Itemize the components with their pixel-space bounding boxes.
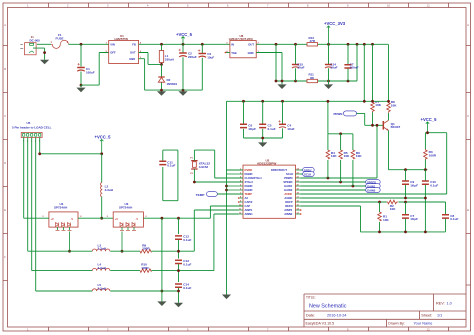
svg-text:-V: -V [71, 218, 74, 221]
svg-text:REFP: REFP [285, 200, 292, 204]
svg-text:CLKIN/XTAL1: CLKIN/XTAL1 [245, 176, 263, 180]
svg-text:REV:: REV: [436, 301, 445, 305]
svg-text:+VCC_3V3: +VCC_3V3 [324, 21, 346, 26]
svg-text:GAIN1: GAIN1 [284, 184, 293, 188]
junction C1 bottom [80, 84, 83, 87]
svg-text:SCLK: SCLK [286, 172, 293, 176]
svg-text:DGND: DGND [245, 172, 253, 176]
svg-text:10uF: 10uF [330, 66, 337, 70]
svg-text:AINP1: AINP1 [245, 208, 253, 212]
wire OUT 3V3 rail [256, 43, 388, 45]
wire header pin3 to row2 [31, 138, 33, 271]
svg-text:E: E [4, 208, 6, 212]
ground (C2) [178, 91, 187, 96]
capacitor C5 0.1uF [259, 101, 275, 138]
wire PDWN pin row [301, 125, 378, 178]
capacitor C1 [77, 44, 95, 85]
ground (D2) [157, 91, 166, 96]
svg-text:LM1117 (SOT-223): LM1117 (SOT-223) [229, 37, 253, 41]
fuse F1 [51, 33, 69, 49]
svg-text:Date:: Date: [306, 313, 315, 317]
wire analog gnd bottom rail [361, 231, 446, 233]
svg-text:GAIN0: GAIN0 [367, 189, 376, 193]
wire U4 pins [40, 217, 113, 219]
svg-text:SP724AH: SP724AH [119, 206, 132, 210]
wire DGND vertical [226, 101, 228, 294]
protection U3 SP724AH [107, 202, 148, 227]
svg-text:E: E [467, 208, 469, 212]
svg-text:PDWN: PDWN [284, 176, 292, 180]
wire header pin1 to U4 [24, 138, 40, 219]
svg-text:+VCC_5: +VCC_5 [176, 32, 193, 37]
svg-text:SPEED: SPEED [283, 180, 292, 184]
wire mid gnd rail [276, 44, 357, 81]
TITLE BLOCK [304, 294, 466, 327]
pin end dots (unconnected pins) [225, 52, 302, 215]
svg-text:BC337: BC337 [391, 125, 401, 129]
inductor L2 3.3uH [101, 154, 114, 197]
svg-text:0.1uF: 0.1uF [183, 238, 191, 242]
node FB rail junctions [160, 43, 163, 46]
wire cap column [178, 218, 180, 302]
svg-text:A: A [4, 23, 6, 27]
wire header pin5 to VCC5 [40, 138, 102, 154]
svg-text:1/1: 1/1 [437, 313, 442, 317]
svg-text:FUSE: FUSE [56, 36, 64, 40]
wire DVDD stub / pin1 [239, 169, 243, 171]
svg-text:GAIN0: GAIN0 [284, 188, 293, 192]
svg-text:3.3uH: 3.3uH [98, 247, 107, 251]
ground (bypass) [258, 142, 267, 147]
svg-text:C: C [467, 114, 469, 118]
svg-text:A: A [467, 23, 469, 27]
svg-text:OUT: OUT [248, 43, 254, 47]
resistor R8 10K [387, 100, 398, 113]
wire REFP row [301, 201, 446, 203]
capacitor C4 10uF [278, 101, 294, 138]
node D2 gnd junction [160, 89, 163, 92]
wire J1 to fuse [37, 43, 51, 45]
wire R7 feed [372, 44, 374, 101]
svg-text:CAP: CAP [245, 204, 251, 208]
op U1 LM2575S [106, 34, 142, 64]
net port PDWN (top) [334, 111, 357, 116]
wire header pin2 to row1 [27, 138, 29, 252]
capacitor C6 1KpF [240, 101, 256, 138]
resistor R7 10K [371, 100, 382, 113]
wire row2 AINN [32, 270, 214, 272]
resistor R1 10K [378, 202, 390, 232]
svg-text:GND: GND [248, 51, 254, 55]
wire crystal to XTAL1 [194, 150, 243, 178]
svg-text:AINN1: AINN1 [245, 212, 254, 216]
svg-text:1KpF: 1KpF [410, 183, 418, 187]
svg-text:DRDY/DOUT: DRDY/DOUT [271, 168, 287, 172]
wire U3 bottom pins [122, 227, 134, 230]
svg-text:GND: GND [129, 57, 135, 61]
wire DVDD feed from rail drop [227, 169, 244, 171]
svg-text:+VCC_5: +VCC_5 [421, 117, 438, 122]
transistor Q1 BC337 [383, 113, 400, 131]
border ticks left/right [3, 46, 8, 281]
svg-text:AVDD: AVDD [284, 192, 291, 196]
svg-text:LM2575S: LM2575S [115, 37, 128, 41]
svg-text:VIN: VIN [110, 43, 115, 47]
svg-text:1.0: 1.0 [447, 301, 452, 305]
svg-text:PDWN: PDWN [334, 112, 343, 116]
net port GAIN0 [366, 188, 381, 193]
connector J1 DC-005 [20, 35, 40, 55]
resistor R4 10K [326, 134, 337, 178]
wire AINP1 vert [194, 210, 239, 251]
svg-text:10K: 10K [344, 154, 350, 158]
capacitor C11 0.1uF loop [159, 150, 178, 201]
wire AVDD top line [389, 169, 428, 171]
capacitor C15 10uF [292, 44, 305, 81]
resistor R5 10K [339, 134, 350, 182]
svg-text:OUT: OUT [130, 51, 136, 55]
wire U4 bottom pins [58, 227, 70, 230]
inductor L4 3.3uH [92, 263, 110, 271]
wire row1 AINP [28, 250, 195, 252]
node L1/OUT junction [160, 63, 163, 66]
wire GAIN0 row [301, 189, 366, 191]
svg-text:3.3uH: 3.3uH [98, 266, 107, 270]
wire U6 TAB stub [226, 52, 230, 54]
svg-text:+V: +V [51, 218, 54, 221]
svg-text:1KpF: 1KpF [410, 217, 418, 221]
svg-text:DGND: DGND [245, 188, 253, 192]
svg-text:10uF: 10uF [287, 127, 294, 131]
svg-text:AINN2: AINN2 [284, 212, 293, 216]
svg-text:3.3uH: 3.3uH [98, 287, 107, 291]
protection U4 SP724AH [42, 202, 82, 227]
svg-text:3.3uH: 3.3uH [105, 188, 114, 192]
ground (cap column) [174, 303, 183, 308]
inductor L3 3.3uH [92, 243, 110, 251]
wire SPEED row [301, 181, 366, 183]
svg-text:DGND: DGND [245, 184, 253, 188]
capacitor C14 0.1uF [175, 283, 191, 290]
svg-text:1KpF: 1KpF [248, 127, 256, 131]
svg-text:DC-005: DC-005 [30, 39, 41, 43]
svg-text:AGND: AGND [284, 196, 292, 200]
svg-text:0.1uF: 0.1uF [167, 164, 175, 168]
svg-text:100nF: 100nF [350, 66, 359, 70]
svg-text:TEMP: TEMP [245, 192, 253, 196]
net port SPEED [366, 180, 381, 185]
ground (input) [40, 60, 49, 65]
svg-text:SCLK: SCLK [304, 173, 311, 177]
wire shield gnd vertical [161, 218, 163, 301]
svg-text:+V: +V [115, 218, 118, 221]
resistor R2 10K [387, 200, 398, 211]
svg-text:TEMP: TEMP [196, 193, 205, 197]
net port GAIN1 [366, 184, 381, 189]
wire AINN1 vert [214, 214, 239, 271]
wire Q1 emitter down [388, 130, 390, 169]
capacitor C9 [402, 170, 418, 198]
svg-text:5 Pin header to LOAD CELL: 5 Pin header to LOAD CELL [12, 125, 52, 129]
diode D2 1N5819 [158, 64, 177, 90]
border ticks top/bottom [49, 3, 449, 8]
power flag +VCC_5 [176, 32, 193, 45]
capacitor C13 0.1uF [175, 259, 191, 266]
wire VCC5 node split [425, 133, 446, 149]
svg-text:10uF: 10uF [207, 56, 214, 60]
svg-text:0.1uF: 0.1uF [450, 217, 458, 221]
svg-text:D: D [4, 161, 6, 165]
wire U6 GND to gnd [256, 53, 282, 82]
wire OFF pin loop [81, 53, 109, 86]
ground (shield) [157, 301, 166, 306]
connector U5 header [12, 121, 52, 142]
svg-text:Your Name: Your Name [414, 321, 433, 325]
svg-text:0.1uF: 0.1uF [268, 127, 276, 131]
inductor L5 3.3uH [92, 283, 110, 291]
wire PDWN to Q1 base [357, 113, 384, 125]
svg-text:100uF: 100uF [86, 71, 95, 75]
capacitor C8 [442, 202, 458, 232]
net port SCLK [301, 172, 315, 177]
svg-text:1N5819: 1N5819 [167, 82, 178, 86]
svg-text:10K: 10K [391, 104, 397, 108]
svg-text:TITLE:: TITLE: [306, 296, 316, 300]
junction node VIN [80, 43, 83, 46]
svg-text:ADS1232IPW: ADS1232IPW [257, 162, 276, 166]
svg-text:10K: 10K [331, 154, 337, 158]
svg-text:0.1uF: 0.1uF [183, 286, 191, 290]
svg-text:C: C [4, 114, 6, 118]
ground (DGND) [222, 295, 231, 300]
wire AGND row [301, 198, 426, 232]
wire REFN down [301, 206, 361, 232]
wire OUT to L1 bottom [139, 53, 162, 65]
svg-text:CAP/2: CAP/2 [245, 200, 253, 204]
capacitor C7 100nF [344, 44, 358, 81]
wire bypass gnd join [244, 138, 283, 142]
wire U1 GND down [139, 59, 203, 90]
svg-text:0.1uF: 0.1uF [183, 262, 191, 266]
svg-text:10K: 10K [356, 154, 362, 158]
svg-text:10K: 10K [390, 207, 396, 211]
U2 pin stubs right [296, 170, 301, 214]
wire header pin4 to row3 [35, 138, 37, 292]
ground (C1) [80, 85, 82, 87]
resistor R3 100R [424, 149, 437, 160]
resistor R12 [307, 36, 318, 46]
wire vert to mid gnd rail [275, 44, 277, 81]
svg-text:10K: 10K [383, 218, 389, 222]
wire R7 to base node [372, 112, 374, 125]
capacitor C10 [422, 170, 438, 198]
svg-text:XTAL2: XTAL2 [245, 180, 254, 184]
svg-text:100R: 100R [429, 153, 437, 157]
svg-text:TAB: TAB [231, 51, 236, 55]
ground (C14) [328, 81, 330, 84]
svg-text:2016-10-24: 2016-10-24 [327, 313, 346, 317]
power flag +VCC_5 (analog) [421, 117, 438, 133]
wire R8 feed [388, 44, 390, 101]
svg-text:10uF: 10uF [297, 66, 304, 70]
U2 pin names [245, 168, 294, 216]
capacitor C12 0.1uF [175, 235, 191, 242]
wire U3 right net [143, 217, 210, 219]
svg-text:330uH: 330uH [165, 58, 174, 62]
wire DGND stubs to vertical [227, 174, 239, 190]
svg-text:47R: 47R [310, 39, 316, 43]
svg-text:AINP2: AINP2 [284, 208, 292, 212]
svg-text:+VCC_5: +VCC_5 [95, 135, 112, 140]
svg-text:FB: FB [132, 43, 136, 47]
svg-text:100R: 100R [142, 247, 150, 251]
wire L2 to +V node [101, 197, 103, 218]
wire main 3V3 rail [227, 100, 389, 102]
wire R4R5R6 top rail [328, 101, 353, 134]
wire row3 shield [36, 290, 179, 292]
wire FB rail to U6 [139, 43, 230, 45]
ground (U6) [281, 81, 283, 84]
inductor L1 [159, 44, 174, 64]
svg-text:220uF: 220uF [188, 55, 197, 59]
U2 pin numbers [239, 167, 300, 214]
svg-text:A0: A0 [245, 196, 249, 200]
wire J1 sleeve to ground [33, 48, 45, 60]
svg-text:10K: 10K [375, 103, 381, 107]
net port TEMP [196, 192, 243, 198]
svg-text:100R: 100R [141, 266, 149, 270]
resistor R9 100R [140, 243, 151, 253]
svg-text:Sheet:: Sheet: [421, 313, 432, 317]
capacitor C7 (ref) [402, 202, 418, 232]
svg-text:B: B [4, 67, 6, 71]
svg-text:OFF: OFF [110, 51, 116, 55]
svg-text:New Schematic: New Schematic [309, 304, 347, 310]
svg-text:EasyEDA V3.10.5: EasyEDA V3.10.5 [306, 321, 335, 325]
capacitor C14 10uF [325, 44, 338, 81]
wire GAIN1 row [301, 185, 366, 187]
resistor R10 100R [140, 263, 151, 273]
resistor R6 10K [351, 134, 362, 186]
U2 pin stubs left [239, 174, 243, 214]
wire AVDD feed right [301, 133, 447, 194]
svg-text:4.9152: 4.9152 [199, 165, 209, 169]
svg-text:REFN: REFN [285, 204, 292, 208]
svg-text:IN: IN [231, 43, 234, 47]
wire fuse to U1 VIN [69, 43, 109, 45]
power flag +VCC_5 (bridge) [95, 135, 112, 154]
capacitor C3 10uF [198, 44, 214, 90]
net port DRDY [301, 168, 315, 173]
wire R3 to avdd line [424, 160, 426, 170]
svg-text:DVDD: DVDD [245, 168, 253, 172]
crystal X1 [190, 158, 210, 175]
capacitor C2 220uF [179, 44, 197, 90]
regulator U6 LM1117 (SOT-223) [226, 34, 259, 58]
svg-text:-V: -V [136, 218, 139, 221]
wire crystal to XTAL2 [194, 169, 243, 182]
wire 3V3 to main rail [363, 44, 365, 101]
svg-text:0.1uF: 0.1uF [430, 183, 438, 187]
power flag +VCC_3V3 [324, 21, 346, 44]
IC U2 ADS1232IPW [243, 158, 296, 218]
svg-text:SP724AH: SP724AH [54, 206, 67, 210]
resistor R11 [307, 73, 318, 83]
wire CAP pin net [210, 206, 243, 218]
node 3V3 rail junctions [275, 43, 278, 46]
svg-text:Drawn By:: Drawn By: [388, 321, 405, 325]
